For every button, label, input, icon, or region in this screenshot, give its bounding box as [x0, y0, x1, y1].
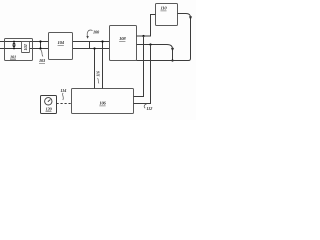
svg-text:110: 110	[160, 6, 167, 11]
svg-text:112: 112	[146, 106, 153, 111]
svg-text:100: 100	[93, 29, 100, 34]
svg-text:103: 103	[39, 58, 46, 63]
svg-text:120: 120	[46, 107, 53, 112]
svg-text:102: 102	[23, 43, 28, 50]
svg-text:104: 104	[58, 40, 65, 45]
svg-text:106: 106	[99, 101, 106, 106]
svg-text:101: 101	[10, 54, 16, 59]
svg-text:114: 114	[60, 88, 67, 93]
svg-text:108: 108	[119, 36, 126, 41]
